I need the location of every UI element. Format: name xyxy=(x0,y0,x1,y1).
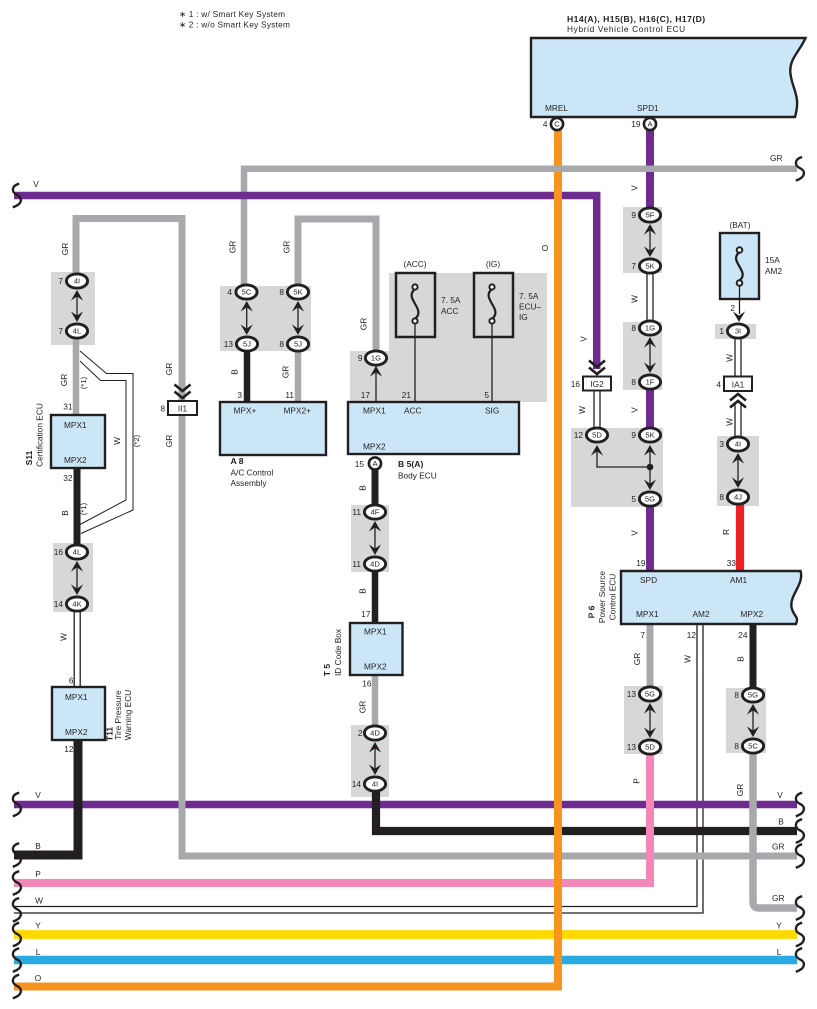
connector block 2-4D/14-4I background xyxy=(351,725,389,797)
connector 2-4D xyxy=(364,726,385,740)
svg-text:GR: GR xyxy=(60,243,70,255)
svg-text:19: 19 xyxy=(636,558,646,568)
svg-text:5: 5 xyxy=(484,390,489,400)
connector 7-4I xyxy=(66,274,87,288)
wire B from T11 MPX2 down to left B bus with left break xyxy=(14,739,78,855)
wire junction 12-5D to 9-5K/5-5G xyxy=(597,446,650,488)
svg-text:1G: 1G xyxy=(371,354,381,363)
svg-text:12: 12 xyxy=(687,630,697,640)
svg-text:B: B xyxy=(60,510,70,516)
wire O orange from MREL pin C down and left to O bus xyxy=(14,130,558,987)
wire GR top line from 5C corner to right break xyxy=(241,166,797,173)
svg-text:S11: S11 xyxy=(24,450,34,465)
wire from fuse IG to Body ECU SIG pin 5 xyxy=(491,324,493,402)
connector block 4F/4D background xyxy=(351,505,389,572)
arrows between 5K and 5J xyxy=(297,303,299,333)
svg-text:8: 8 xyxy=(734,741,739,751)
svg-text:MPX2+: MPX2+ xyxy=(284,406,312,416)
svg-text:(IG): (IG) xyxy=(486,259,501,269)
svg-text:4: 4 xyxy=(716,380,721,390)
svg-text:T 5: T 5 xyxy=(322,664,332,677)
wire GR from T5 MPX2 pin 16 to 2-4D xyxy=(372,675,379,727)
svg-text:AM2: AM2 xyxy=(693,609,710,619)
svg-text:4L: 4L xyxy=(73,327,81,336)
svg-text:15A: 15A xyxy=(765,255,780,265)
connector block 4I/4L (S11 column) background xyxy=(51,272,95,345)
svg-text:MPX1: MPX1 xyxy=(636,609,659,619)
wire Y bus xyxy=(14,930,797,939)
svg-text:14: 14 xyxy=(54,599,64,609)
wire from fuse ACC to Body ECU ACC pin 21 xyxy=(414,324,416,402)
wire GR staple from 4I column across to II1 column, down to GR bus xyxy=(76,219,797,857)
svg-text:2: 2 xyxy=(358,728,363,738)
svg-text:O: O xyxy=(540,244,550,251)
svg-text:11: 11 xyxy=(352,559,361,569)
svg-text:15: 15 xyxy=(355,459,365,469)
break W left xyxy=(13,898,21,922)
wire L bus xyxy=(14,956,797,965)
svg-text:6: 6 xyxy=(69,676,74,686)
svg-text:13: 13 xyxy=(224,339,234,349)
svg-text:W: W xyxy=(35,896,43,906)
wire W from 1-3I to IA1 (double thin line) xyxy=(734,338,736,376)
svg-text:H14(A), H15(B), H16(C), H17(D): H14(A), H15(B), H16(C), H17(D) xyxy=(567,14,706,24)
junction block 5D/5K/5G background xyxy=(571,428,663,507)
connector 11-4D xyxy=(364,557,385,571)
connector 14-4K xyxy=(66,597,87,611)
svg-text:4I: 4I xyxy=(735,440,741,449)
pin 19 A of H14 xyxy=(644,118,656,130)
svg-text:V: V xyxy=(579,336,589,342)
svg-text:V: V xyxy=(777,790,783,800)
svg-text:5G: 5G xyxy=(645,495,655,504)
svg-text:Control ECU: Control ECU xyxy=(608,574,618,621)
connector 9-5K xyxy=(639,428,660,442)
break V bottom left xyxy=(13,793,21,817)
svg-text:MPX2: MPX2 xyxy=(364,662,387,672)
svg-text:MPX2: MPX2 xyxy=(65,727,88,737)
svg-text:L: L xyxy=(777,947,782,957)
svg-text:4F: 4F xyxy=(371,508,380,517)
svg-text:MPX1: MPX1 xyxy=(65,692,88,702)
svg-text:GR: GR xyxy=(281,366,291,378)
svg-text:V: V xyxy=(630,407,640,413)
svg-text:MREL: MREL xyxy=(545,103,568,113)
svg-text:∗ 2 : w/o Smart Key System: ∗ 2 : w/o Smart Key System xyxy=(179,20,290,30)
wire B from 13-5J to A/C MPX+ pin 3 xyxy=(244,350,251,403)
wire B from 14-4I down to right B bus xyxy=(376,790,797,831)
connector 13-5G xyxy=(639,687,660,701)
svg-text:12: 12 xyxy=(574,430,584,440)
svg-text:SPD1: SPD1 xyxy=(637,103,659,113)
svg-text:24: 24 xyxy=(738,630,748,640)
break Y right xyxy=(796,923,804,947)
svg-text:Y: Y xyxy=(776,921,782,931)
connector block 5C/5J + 5K/5J background xyxy=(220,286,311,351)
svg-text:GR: GR xyxy=(164,435,174,447)
svg-text:13: 13 xyxy=(627,742,637,752)
wire B from S11 MPX2 pin 32 to 16-4L xyxy=(74,467,81,546)
svg-text:GR: GR xyxy=(735,784,745,796)
svg-text:V: V xyxy=(33,179,39,189)
svg-text:L: L xyxy=(36,947,41,957)
arrows between 5F and 5K xyxy=(649,226,651,255)
connector 13-5J xyxy=(236,337,257,351)
svg-text:32: 32 xyxy=(63,473,73,483)
svg-text:5K: 5K xyxy=(645,431,654,440)
arrow into 5-5G xyxy=(644,479,656,490)
svg-text:ACC: ACC xyxy=(441,306,459,316)
svg-text:8: 8 xyxy=(160,404,165,414)
connector block 4I/4J background xyxy=(717,436,759,506)
svg-text:ACC: ACC xyxy=(404,406,422,416)
svg-text:11: 11 xyxy=(352,507,361,517)
svg-text:(*2): (*2) xyxy=(132,434,141,447)
svg-text:8: 8 xyxy=(719,492,724,502)
wire W from IG2 to 12-5D (double thin line) xyxy=(593,390,595,429)
svg-text:P: P xyxy=(35,869,41,879)
svg-text:(*1): (*1) xyxy=(79,502,88,515)
connector block 1G/1F background xyxy=(623,322,662,390)
svg-text:19: 19 xyxy=(631,119,641,129)
svg-text:Body ECU: Body ECU xyxy=(398,471,437,481)
svg-text:2: 2 xyxy=(730,303,735,313)
svg-text:Warning ECU: Warning ECU xyxy=(123,690,133,740)
wire B from Body ECU pin 15 to 11-4F xyxy=(372,470,379,506)
svg-text:5C: 5C xyxy=(242,288,252,297)
svg-text:5G: 5G xyxy=(748,691,758,700)
fuse IG xyxy=(474,273,513,337)
svg-text:Tire Pressure: Tire Pressure xyxy=(113,690,123,740)
svg-text:7: 7 xyxy=(640,630,645,640)
svg-text:SPD: SPD xyxy=(640,575,657,585)
svg-text:9: 9 xyxy=(631,210,636,220)
svg-text:4J: 4J xyxy=(734,493,742,502)
connector 13-5D xyxy=(639,740,660,754)
break L right xyxy=(796,948,804,972)
svg-text:GR: GR xyxy=(772,842,784,852)
svg-text:Hybrid Vehicle Control ECU: Hybrid Vehicle Control ECU xyxy=(567,24,686,34)
svg-text:8: 8 xyxy=(631,377,636,387)
break P left xyxy=(13,871,21,895)
wire V bottom bus xyxy=(14,801,797,809)
svg-text:5J: 5J xyxy=(243,340,251,349)
svg-text:IG2: IG2 xyxy=(590,379,604,389)
connector block 16-4L/14-4K background xyxy=(53,543,93,612)
svg-text:16: 16 xyxy=(571,379,581,389)
svg-text:GR: GR xyxy=(358,701,368,713)
svg-text:Power Source: Power Source xyxy=(597,571,607,623)
svg-text:8: 8 xyxy=(631,323,636,333)
svg-text:MPX1: MPX1 xyxy=(363,406,386,416)
ECU A8 A/C Control Assembly box xyxy=(220,402,326,455)
break L left xyxy=(13,948,21,972)
arrows between 4F and 4D xyxy=(374,523,376,553)
svg-text:3: 3 xyxy=(719,439,724,449)
ECU S11 Certification ECU box xyxy=(51,415,105,468)
connector 8-5K xyxy=(287,285,308,299)
connector 8-4J xyxy=(727,490,748,504)
wire B from P6 MPX2 pin 24 to 8-5G xyxy=(750,623,757,690)
ECU B5 Body ECU box xyxy=(348,402,519,454)
arrow into 9-5K xyxy=(644,445,656,456)
svg-text:8: 8 xyxy=(279,287,284,297)
svg-text:GR: GR xyxy=(359,318,369,330)
svg-text:5K: 5K xyxy=(293,288,302,297)
svg-text:MPX2: MPX2 xyxy=(64,455,87,465)
svg-text:GR: GR xyxy=(770,153,782,163)
connector 12-5D xyxy=(586,428,607,442)
svg-text:MPX2: MPX2 xyxy=(363,442,386,452)
svg-text:1G: 1G xyxy=(645,324,655,333)
arrow into 12-5D xyxy=(591,445,603,456)
svg-text:33: 33 xyxy=(727,558,737,568)
wire GR from P6 MPX1 pin 7 to 13-5G xyxy=(647,623,654,689)
svg-text:5C: 5C xyxy=(748,742,758,751)
arrows between 4I and 4J xyxy=(737,455,739,486)
svg-text:B: B xyxy=(778,817,784,827)
wire W from AM2 pin 12 down and left to W bus (double thin line) xyxy=(14,624,697,907)
svg-text:4D: 4D xyxy=(370,560,380,569)
connector block 5F/5K background xyxy=(623,207,662,273)
junction block background (fuses ACC/IG + 1G) xyxy=(350,273,547,402)
svg-text:GR: GR xyxy=(59,374,69,386)
svg-text:5D: 5D xyxy=(592,431,602,440)
arrows between 1G and 1F xyxy=(649,339,651,371)
break GR lower right xyxy=(796,896,804,920)
svg-text:5K: 5K xyxy=(645,262,654,271)
wire V purple from SPD1 pin A to connector 5F xyxy=(646,130,654,210)
svg-text:31: 31 xyxy=(63,402,73,412)
svg-text:W: W xyxy=(725,354,735,362)
arrows between 5C and 5J xyxy=(246,303,248,333)
svg-text:Certification ECU: Certification ECU xyxy=(35,403,45,467)
connector 11-4F xyxy=(364,505,385,519)
connector 3I background xyxy=(715,324,756,339)
wire GR vertical to connector 5C xyxy=(241,166,248,293)
svg-text:13: 13 xyxy=(627,689,637,699)
svg-text:SIG: SIG xyxy=(485,406,499,416)
svg-text:Assembly: Assembly xyxy=(231,478,268,488)
wire GR from 7-4L to S11 MPX1 pin 31 xyxy=(73,337,80,416)
svg-text:B: B xyxy=(35,841,41,851)
svg-text:Y: Y xyxy=(35,921,41,931)
wire V top bus from left break to IG2 chevron xyxy=(14,196,597,370)
svg-text:11: 11 xyxy=(285,390,294,400)
svg-text:16: 16 xyxy=(54,547,64,557)
svg-text:(*1): (*1) xyxy=(79,376,88,389)
svg-text:17: 17 xyxy=(361,390,371,400)
arrow into 1-3I xyxy=(733,311,745,322)
connector block 13-5G/13-5D background xyxy=(624,686,663,754)
svg-text:9: 9 xyxy=(631,430,636,440)
svg-text:V: V xyxy=(35,790,41,800)
svg-text:GR: GR xyxy=(164,363,174,375)
connector block 8-5G/8-5C background xyxy=(726,688,766,753)
connector 9-5F xyxy=(639,208,660,222)
arrow into 9-1G xyxy=(370,366,382,377)
break Y left xyxy=(13,923,21,947)
svg-text:7: 7 xyxy=(58,326,63,336)
svg-text:W: W xyxy=(683,655,693,663)
svg-text:1F: 1F xyxy=(646,378,655,387)
break B right xyxy=(796,819,804,843)
svg-text:GR: GR xyxy=(772,893,784,903)
connector 7-4L xyxy=(66,324,87,338)
svg-text:B: B xyxy=(358,485,368,491)
svg-text:W: W xyxy=(577,406,587,414)
svg-text:(ACC): (ACC) xyxy=(403,259,426,269)
break V top left xyxy=(13,184,21,208)
wire V purple from 5-5G to P6 SPD pin 19 xyxy=(646,505,654,572)
svg-text:4D: 4D xyxy=(370,729,380,738)
connector 8-5C (right) xyxy=(742,739,763,753)
wire B from 11-4D to T5 MPX1 pin 17 xyxy=(372,570,379,624)
wire W from IA1 to 3-4I (double thin line) xyxy=(734,404,736,438)
svg-text:∗ 1 : w/ Smart Key System: ∗ 1 : w/ Smart Key System xyxy=(179,9,285,19)
junction connector IG2 xyxy=(589,361,605,375)
svg-text:MPX+: MPX+ xyxy=(234,406,257,416)
svg-text:7. 5A: 7. 5A xyxy=(441,295,461,305)
connector 4-5C xyxy=(236,285,257,299)
svg-text:5D: 5D xyxy=(645,743,655,752)
pin 15 A of Body ECU xyxy=(369,457,381,469)
svg-text:V: V xyxy=(630,530,640,536)
svg-text:4: 4 xyxy=(543,119,548,129)
svg-text:GR: GR xyxy=(632,653,642,665)
svg-text:B 5(A): B 5(A) xyxy=(398,459,423,469)
wire W from 7-5K to 8-1G (double thin line) xyxy=(646,273,648,322)
svg-text:B: B xyxy=(736,656,746,662)
svg-text:A 8: A 8 xyxy=(231,456,244,466)
svg-text:16: 16 xyxy=(362,679,372,689)
svg-text:21: 21 xyxy=(402,390,412,400)
connector 8-5J xyxy=(287,337,308,351)
svg-text:3: 3 xyxy=(237,390,242,400)
svg-text:9: 9 xyxy=(358,353,363,363)
svg-text:W: W xyxy=(725,418,735,426)
svg-text:GR: GR xyxy=(228,241,238,253)
svg-text:5J: 5J xyxy=(294,340,302,349)
svg-text:17: 17 xyxy=(361,609,371,619)
svg-text:AM1: AM1 xyxy=(730,575,747,585)
svg-text:AM2: AM2 xyxy=(765,266,782,276)
wire V purple from 1F to 9-5K xyxy=(646,388,654,430)
connector 5-5G xyxy=(639,492,660,506)
connector 14-4I xyxy=(364,777,385,791)
connector 9-1G (Body ECU) xyxy=(365,351,386,365)
svg-text:(BAT): (BAT) xyxy=(729,220,750,230)
svg-text:ECU–: ECU– xyxy=(519,302,542,312)
connector 7-5K xyxy=(639,259,660,273)
option branch outline (*1)/(*2) xyxy=(80,351,133,534)
svg-text:O: O xyxy=(35,973,42,983)
svg-text:14: 14 xyxy=(352,779,362,789)
svg-text:5F: 5F xyxy=(646,211,655,220)
svg-text:ID Code Box: ID Code Box xyxy=(333,628,343,676)
wire P pink from 13-5D down and left to P bus xyxy=(14,752,650,883)
svg-text:5: 5 xyxy=(631,494,636,504)
ECU U-H14 Hybrid Vehicle Control ECU box xyxy=(531,38,806,117)
svg-text:4I: 4I xyxy=(74,277,80,286)
svg-text:4L: 4L xyxy=(73,548,81,557)
svg-text:4K: 4K xyxy=(72,600,81,609)
ECU P6 Power Source Control ECU box xyxy=(621,571,801,624)
arrows between 5G and 5C xyxy=(752,706,754,735)
svg-text:MPX2: MPX2 xyxy=(741,609,764,619)
svg-text:7. 5A: 7. 5A xyxy=(519,291,539,301)
wire from Body ECU MPX1 pin 17 up to 9-1G xyxy=(375,366,377,402)
svg-text:MPX1: MPX1 xyxy=(364,627,387,637)
fuse ACC xyxy=(396,273,435,337)
svg-text:W: W xyxy=(112,437,122,445)
svg-text:P 6: P 6 xyxy=(587,605,597,618)
svg-text:W: W xyxy=(630,295,640,303)
wire GR from 8-5J to A/C MPX2+ pin 11 xyxy=(295,350,302,403)
fuse 15A AM2 (BAT) xyxy=(720,233,759,299)
pin 4 C of H14 xyxy=(551,118,563,130)
break B left xyxy=(13,843,21,867)
svg-text:5G: 5G xyxy=(645,690,655,699)
svg-text:A/C Control: A/C Control xyxy=(231,468,274,478)
arrows between 4D and 4I xyxy=(374,744,376,773)
svg-text:4I: 4I xyxy=(372,780,378,789)
connector 8-5G (right) xyxy=(742,688,763,702)
ECU T11 Tire Pressure Warning ECU box xyxy=(52,687,105,740)
svg-text:1: 1 xyxy=(719,326,724,336)
svg-text:8: 8 xyxy=(734,690,739,700)
wire GR from 8-5C down to lower GR bus with right break xyxy=(753,752,797,908)
svg-text:B: B xyxy=(230,369,240,375)
svg-text:W: W xyxy=(59,633,69,641)
svg-text:II1: II1 xyxy=(178,404,188,414)
break V bottom right xyxy=(796,793,804,817)
junction connector II1 xyxy=(175,385,191,399)
svg-text:C: C xyxy=(554,120,560,129)
ECU T5 ID Code Box xyxy=(350,623,403,675)
connector 16-4L xyxy=(66,545,87,559)
connector 3-4I xyxy=(727,437,748,451)
connector 1-3I xyxy=(727,324,748,338)
svg-text:P: P xyxy=(632,778,642,784)
svg-text:MPX1: MPX1 xyxy=(64,420,87,430)
svg-text:IG: IG xyxy=(519,312,528,322)
svg-text:GR: GR xyxy=(282,241,292,253)
junction node dot xyxy=(647,464,654,471)
break GR right xyxy=(796,844,804,868)
svg-text:12: 12 xyxy=(64,744,74,754)
svg-text:7: 7 xyxy=(631,261,636,271)
svg-text:R: R xyxy=(721,529,731,535)
arrows between 4I and 4L xyxy=(76,292,78,320)
svg-text:8: 8 xyxy=(279,339,284,349)
svg-text:7: 7 xyxy=(58,276,63,286)
connector 8-1G xyxy=(639,321,660,335)
break GR top right xyxy=(796,157,804,181)
arrows between 4L and 4K xyxy=(76,563,78,593)
svg-text:3I: 3I xyxy=(735,327,741,336)
wire R red from 8-4J to P6 AM1 pin 33 xyxy=(736,504,744,572)
svg-text:IA1: IA1 xyxy=(732,380,745,390)
wire W from 14-4K to T11 pin 6 (double thin line) xyxy=(73,610,75,688)
wire GR staple to 5K and 1G xyxy=(298,219,376,353)
svg-text:4: 4 xyxy=(227,287,232,297)
arrows between 5G and 5D xyxy=(649,705,651,736)
svg-text:V: V xyxy=(630,185,640,191)
break O left xyxy=(13,975,21,999)
connector 8-1F xyxy=(639,375,660,389)
svg-text:B: B xyxy=(358,588,368,594)
